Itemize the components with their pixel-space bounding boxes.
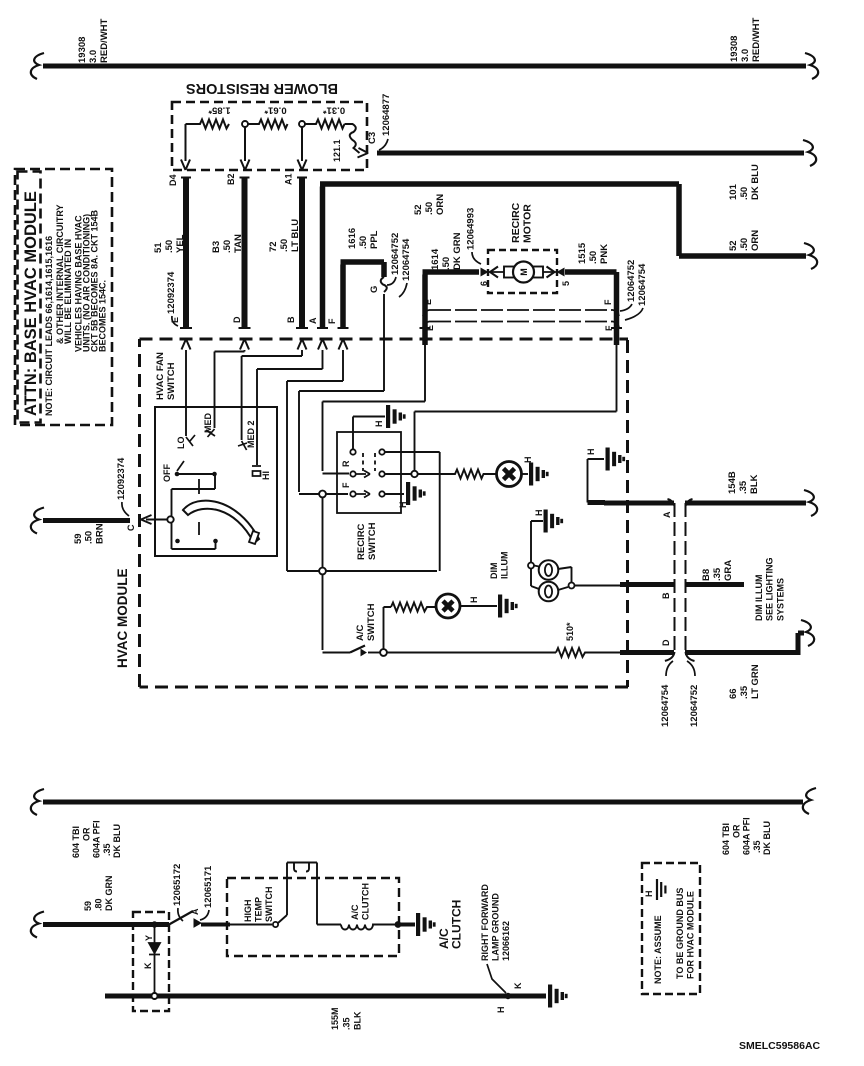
label HVAC FAN SWITCH <box>155 352 177 400</box>
svg-text:RECIRC: RECIRC <box>356 523 367 560</box>
svg-text:.35: .35 <box>752 840 762 853</box>
svg-text:3.0: 3.0 <box>740 49 751 62</box>
label R <box>341 460 351 467</box>
svg-text:BLK: BLK <box>749 474 760 494</box>
label 12065171 <box>203 865 214 908</box>
contact diode to 155M line <box>152 993 158 999</box>
contact MED flick <box>206 429 215 437</box>
wire break symbol left 19308 <box>31 53 44 79</box>
label 19308 3.0 RED/WHT left <box>77 18 110 63</box>
label B2 <box>226 173 236 185</box>
wiper tip <box>249 531 259 544</box>
svg-text:12064877: 12064877 <box>381 94 392 136</box>
leader 12064752 right to row1 <box>620 304 632 311</box>
linkage dashed 2 <box>374 453 376 471</box>
contact right mid <box>379 471 384 476</box>
contact upper-left to ground <box>350 449 355 454</box>
svg-text:MED: MED <box>203 413 213 434</box>
wire break symbol 66 LT GRN <box>801 620 814 646</box>
wire A/C lamp to ground <box>460 605 497 607</box>
label 19308 3.0 RED/WHT right <box>729 17 762 62</box>
connector arrow pin E <box>182 339 191 350</box>
switch detent tick lower <box>198 522 200 535</box>
label C3 <box>367 132 378 144</box>
contact switch A <box>194 919 201 927</box>
label pin C <box>126 524 136 531</box>
svg-text:154B: 154B <box>727 471 738 494</box>
svg-text:CLUTCH: CLUTCH <box>450 900 464 949</box>
inductor A/C clutch coil <box>341 925 395 930</box>
svg-text:PPL: PPL <box>369 230 380 249</box>
diode box <box>133 912 169 1011</box>
label F row2 <box>604 325 614 331</box>
svg-text:604A PFI: 604A PFI <box>742 817 752 855</box>
svg-text:.35: .35 <box>341 1017 351 1030</box>
svg-text:1.85*: 1.85* <box>208 105 230 116</box>
svg-text:52: 52 <box>728 240 739 251</box>
pin tick A bottom <box>317 327 328 329</box>
svg-text:ILLUM: ILLUM <box>500 552 510 580</box>
svg-text:RED/WHT: RED/WHT <box>99 18 110 63</box>
ground H dim illum <box>544 510 564 533</box>
recirc switch arm row2 <box>356 471 370 478</box>
wire dim illum ground feed <box>531 521 543 586</box>
label 12064754 bottom <box>660 684 671 727</box>
wire B8 GRA B pin <box>620 582 744 587</box>
label 1515 .50 PNK <box>577 242 610 264</box>
wire diode vertical <box>154 927 156 993</box>
svg-text:A/C: A/C <box>355 625 366 642</box>
svg-text:PNK: PNK <box>599 244 610 264</box>
wire 72 LT BLU (A1) heavy vertical <box>299 177 305 328</box>
svg-text:ATTN: BASE HVAC MODULE: ATTN: BASE HVAC MODULE <box>22 191 40 416</box>
svg-text:D: D <box>232 316 242 323</box>
svg-text:B2: B2 <box>226 173 236 185</box>
recirc switch box <box>337 432 401 513</box>
svg-text:SMELC59586AC: SMELC59586AC <box>739 1040 821 1052</box>
label pin D output <box>661 639 671 646</box>
svg-text:RIGHT FORWARD: RIGHT FORWARD <box>480 884 490 961</box>
connector arrow pin B <box>298 339 307 350</box>
lamp dim illum upper filament <box>545 564 552 576</box>
label MED 2 <box>246 420 256 448</box>
label A1 <box>284 173 294 185</box>
svg-text:H: H <box>644 891 654 898</box>
label 121.1 <box>332 139 342 162</box>
leader 12064754 <box>399 283 407 297</box>
svg-text:ORN: ORN <box>750 230 761 251</box>
lamp A/C indicator <box>436 594 460 618</box>
svg-text:12092374: 12092374 <box>166 271 177 314</box>
svg-text:0.61*: 0.61* <box>264 105 286 116</box>
svg-text:.50: .50 <box>588 251 599 264</box>
node clutch output <box>395 921 402 928</box>
svg-text:5: 5 <box>561 281 571 286</box>
label NOTE: ASSUME <box>653 915 663 984</box>
svg-text:H: H <box>586 449 596 456</box>
svg-text:3.0: 3.0 <box>88 50 99 63</box>
pin tick F bottom <box>338 327 349 329</box>
svg-text:SWITCH: SWITCH <box>264 887 274 923</box>
recirc motor box <box>488 250 557 293</box>
node dim illum left junction <box>528 563 534 569</box>
connector arrow pin A <box>318 339 327 350</box>
svg-text:C: C <box>126 524 136 531</box>
svg-text:52: 52 <box>413 204 424 215</box>
linkage dashed 1 <box>362 453 364 471</box>
label pin A output <box>662 511 672 518</box>
node dim illum right junction <box>569 583 575 589</box>
label TO BE GROUND BUS / FOR HVAC MODULE <box>675 888 696 979</box>
node fan switch input dot <box>167 516 173 522</box>
svg-text:HI: HI <box>261 471 271 480</box>
svg-text:MED 2: MED 2 <box>246 420 256 448</box>
lamp A/C filament X <box>443 601 453 611</box>
contact right bottom <box>379 491 384 496</box>
connector line C right half <box>686 499 695 661</box>
svg-text:TAN: TAN <box>233 234 244 253</box>
svg-text:F: F <box>327 318 337 324</box>
leader 12064754 bottom <box>666 661 673 676</box>
wire break symbol left 604 <box>31 789 44 815</box>
leader 12092374 to C <box>122 502 129 516</box>
wire 19308 RED/WHT feed bus <box>43 64 806 69</box>
NOTE assume box <box>642 863 700 994</box>
wire A pin to HI contact <box>257 350 323 465</box>
svg-text:HVAC MODULE: HVAC MODULE <box>115 569 130 669</box>
wire motor internal <box>489 271 556 273</box>
svg-text:SEE LIGHTING: SEE LIGHTING <box>765 557 775 621</box>
svg-text:HVAC FAN: HVAC FAN <box>155 352 166 400</box>
svg-text:.50: .50 <box>739 187 750 200</box>
connector arrow A1 at resistor box <box>298 160 307 171</box>
contact A/C switch <box>361 650 366 656</box>
wire riser to recirc switch top-right contact <box>385 452 440 571</box>
connector row C1 (12064752) <box>423 310 619 316</box>
svg-text:DK GRN: DK GRN <box>104 876 114 912</box>
contact MED 2 flick <box>238 441 247 450</box>
high temp switch blade <box>278 915 287 923</box>
label H dim illum ground <box>534 510 544 517</box>
svg-text:F: F <box>604 325 614 331</box>
HVAC MODULE box <box>140 339 629 687</box>
svg-text:604 TBI: 604 TBI <box>721 823 731 855</box>
label H A/C lamp ground <box>469 597 479 604</box>
label K diode <box>143 962 153 969</box>
svg-text:.50: .50 <box>222 240 233 253</box>
svg-text:NOTE: ASSUME: NOTE: ASSUME <box>653 915 663 984</box>
label 12092374 connector <box>166 271 177 314</box>
resistor recirc lamp <box>418 470 496 479</box>
node junction resistor 1-2 <box>242 121 248 127</box>
label pin E <box>170 317 180 323</box>
label DIM ILLUM <box>489 552 510 580</box>
label 5 <box>561 281 571 286</box>
label E row1 <box>423 299 433 305</box>
pin tick D bottom <box>239 327 251 329</box>
svg-text:H: H <box>534 510 544 517</box>
svg-text:101: 101 <box>728 183 739 200</box>
svg-text:66: 66 <box>728 688 739 699</box>
svg-text:121.1: 121.1 <box>332 139 342 162</box>
contact OFF dot <box>175 472 180 477</box>
label 52 .50 ORN upper <box>413 194 446 215</box>
svg-text:59: 59 <box>83 901 93 911</box>
svg-text:H: H <box>398 502 408 509</box>
wire OFF linkage <box>172 474 216 549</box>
svg-text:A: A <box>308 317 318 324</box>
wire F-net horizontal to A/C branch <box>287 570 437 572</box>
wire 59 DK GRN heavy <box>43 922 169 927</box>
svg-text:6: 6 <box>479 281 489 286</box>
svg-text:SYSTEMS: SYSTEMS <box>775 578 785 621</box>
label 510* <box>565 622 575 641</box>
wire break symbol left 59 BRN <box>31 508 44 534</box>
lamp dim illum lower filament <box>545 586 552 598</box>
wire B pin to MED 2 contact <box>242 350 302 440</box>
label 72 .50 LT BLU <box>268 219 301 252</box>
svg-text:.35: .35 <box>739 685 750 699</box>
wire C to fan switch input <box>146 519 167 521</box>
HVAC fan switch box <box>155 407 277 556</box>
wire 1614 E pin into module to R contact <box>323 345 426 474</box>
label OFF <box>162 464 172 482</box>
resistor 0.61 ohm <box>248 120 288 129</box>
svg-text:1616: 1616 <box>347 228 358 249</box>
connector arrow into recirc motor 6 <box>490 267 498 278</box>
ground H recirc bottom <box>406 482 426 505</box>
label H bus A ground <box>586 449 596 456</box>
svg-text:DIM: DIM <box>489 563 499 580</box>
ground H bus A <box>606 448 626 471</box>
svg-text:12064754: 12064754 <box>637 263 648 306</box>
svg-text:DK BLU: DK BLU <box>762 821 772 855</box>
svg-text:CLUTCH: CLUTCH <box>361 883 371 920</box>
svg-text:SWITCH: SWITCH <box>166 362 177 400</box>
svg-text:604 TBI: 604 TBI <box>71 826 81 858</box>
wire 1614 DK GRN heavy (E pin to recirc motor 6) <box>423 272 480 345</box>
svg-text:DK GRN: DK GRN <box>452 232 463 270</box>
label A switch <box>190 908 200 915</box>
wire break symbol right 19308 <box>805 53 818 79</box>
node junction resistor 2-3 <box>299 121 305 127</box>
svg-text:DK BLU: DK BLU <box>112 824 122 858</box>
svg-text:GRA: GRA <box>723 560 734 581</box>
motor brush left <box>504 267 514 278</box>
wire junction1 to junction2 <box>322 497 324 567</box>
label 51 .50 YEL <box>153 234 186 253</box>
svg-text:12064752: 12064752 <box>390 233 401 275</box>
wire B3 TAN (B2) heavy vertical <box>242 177 248 328</box>
svg-text:12065171: 12065171 <box>203 865 214 908</box>
leader right forward lamp ground <box>487 964 506 993</box>
svg-text:K: K <box>143 962 153 969</box>
connector arrow D4 at resistor box <box>181 160 190 171</box>
label pin D <box>232 316 242 323</box>
svg-text:NOTE: CIRCUIT LEADS 66,1614,16: NOTE: CIRCUIT LEADS 66,1614,1615,1616 <box>44 236 54 416</box>
switch A blade <box>169 911 193 925</box>
node right forward lamp ground tap <box>505 993 511 999</box>
svg-text:.50: .50 <box>358 236 369 249</box>
contact LO flick <box>186 435 195 446</box>
wire break symbol right 604 <box>803 788 816 814</box>
label 12064754 at G <box>401 238 412 281</box>
svg-text:M: M <box>519 268 529 276</box>
label A/C CLUTCH in box <box>350 883 371 920</box>
ground H A/C lamp <box>498 595 518 618</box>
leader 12065172 <box>178 908 183 921</box>
svg-text:12064752: 12064752 <box>689 685 700 727</box>
svg-text:G: G <box>369 286 380 293</box>
contact D8 dot left <box>175 539 180 544</box>
label 12064752 at G <box>390 233 401 275</box>
label D4 <box>168 174 178 186</box>
resistor 1.85 ohm <box>186 120 230 129</box>
svg-text:D4: D4 <box>168 174 178 186</box>
svg-text:.50: .50 <box>84 531 95 544</box>
svg-text:12064993: 12064993 <box>466 208 477 250</box>
svg-text:.50: .50 <box>739 238 750 251</box>
recirc switch arm row3 <box>356 491 370 498</box>
svg-text:LT BLU: LT BLU <box>290 219 301 252</box>
leader 12092374 to pin row <box>172 316 178 326</box>
leader 12064752 to G <box>387 277 396 285</box>
wire dim illum lower links <box>531 586 568 590</box>
label 12064752 right <box>626 260 637 302</box>
svg-text:B: B <box>661 592 671 599</box>
label 59 .50 BRN <box>73 523 105 544</box>
svg-text:FOR HVAC MODULE: FOR HVAC MODULE <box>686 891 696 979</box>
fan switch wiper arc <box>183 501 259 543</box>
label 1616 .50 PPL <box>347 228 380 249</box>
wire to 510 resistor <box>387 652 556 654</box>
label HI <box>261 471 271 480</box>
switch detent tick upper <box>198 479 200 494</box>
thermal element bracket <box>287 863 317 916</box>
high temp switch box <box>227 878 399 956</box>
label 604 TBI OR 604A PFI .35 DK BLU right <box>721 817 772 855</box>
svg-text:DK BLU: DK BLU <box>750 164 761 200</box>
resistor 510 ohm <box>556 648 627 657</box>
label MED <box>203 413 213 434</box>
label B8 .35 GRA <box>701 560 734 581</box>
label F recirc <box>341 482 351 488</box>
svg-text:A1: A1 <box>284 173 294 185</box>
label RECIRC MOTOR <box>510 202 534 243</box>
svg-text:F: F <box>603 299 613 305</box>
svg-text:OR: OR <box>81 827 91 841</box>
label F row1 <box>603 299 613 305</box>
svg-text:H: H <box>374 421 384 428</box>
ground A/C clutch <box>416 913 436 936</box>
svg-text:12064752: 12064752 <box>626 260 637 302</box>
pin tick D4 top <box>181 177 191 179</box>
wire mid drop 1 to B2 <box>244 127 246 161</box>
label H recirc lamp ground <box>523 457 533 464</box>
motor brush right <box>533 267 543 278</box>
ground H recirc lamp <box>529 463 549 486</box>
label 12064877 <box>381 94 392 136</box>
svg-text:BLOWER RESISTORS: BLOWER RESISTORS <box>186 80 338 96</box>
svg-text:12064754: 12064754 <box>660 684 671 727</box>
blower resistors box <box>172 102 367 170</box>
svg-text:SWITCH: SWITCH <box>367 522 378 560</box>
svg-text:.50: .50 <box>279 239 290 252</box>
label 154B .35 BLK <box>727 471 760 494</box>
lamp recirc filament X <box>504 469 515 480</box>
label LO <box>176 437 186 450</box>
connector arrow from motor 5 <box>547 267 555 278</box>
node recirc lamp junction <box>411 471 417 477</box>
svg-text:19308: 19308 <box>77 37 88 63</box>
label RECIRC SWITCH <box>356 522 378 560</box>
label 12092374 at C <box>116 457 127 500</box>
leader 12065171 <box>200 910 209 920</box>
svg-text:DIM ILLUM: DIM ILLUM <box>754 575 764 622</box>
wire dim illum to B pin <box>575 585 628 587</box>
connector arrow pin D <box>240 339 249 350</box>
svg-text:.35: .35 <box>102 843 112 856</box>
node junction 1616/recirc F <box>319 491 326 498</box>
ATTN note outer box <box>15 169 112 425</box>
wire A/C lamp branch riser <box>384 607 392 649</box>
resistor 0.31 ohm <box>305 120 345 129</box>
label 101 .50 DK BLU <box>728 164 761 200</box>
label 12064993 <box>466 208 477 250</box>
connector arrow C3 <box>358 148 369 158</box>
lamp dim illum upper <box>539 560 559 580</box>
label ATTN note text <box>44 205 108 417</box>
A/C switch blade <box>350 646 365 653</box>
wire recirc mid contact to junction <box>385 473 411 475</box>
svg-text:RECIRC: RECIRC <box>510 202 522 243</box>
svg-text:H: H <box>496 1007 506 1014</box>
label H 155M <box>496 1007 506 1014</box>
wire D pin to MED contact <box>215 350 245 428</box>
svg-text:A: A <box>190 908 200 915</box>
resistor A/C lamp <box>391 603 436 612</box>
svg-text:HIGH: HIGH <box>243 900 253 923</box>
leader 12064752 bottom <box>687 661 695 676</box>
svg-text:YEL: YEL <box>175 234 186 253</box>
svg-text:LAMP GROUND: LAMP GROUND <box>491 893 501 961</box>
label Y <box>144 935 154 941</box>
label DIM ILLUM SEE LIGHTING SYSTEMS <box>754 557 785 621</box>
motor M armature <box>513 262 534 283</box>
leader 12064877 to C3 <box>379 139 388 150</box>
svg-text:LO: LO <box>176 437 186 450</box>
wire break symbol right 52 ORN <box>804 243 817 269</box>
svg-text:TO BE GROUND BUS: TO BE GROUND BUS <box>675 888 685 979</box>
label H note ground <box>644 891 654 898</box>
label 59 .80 DK GRN <box>83 876 114 912</box>
svg-text:E: E <box>425 325 435 331</box>
contact high temp switch <box>273 922 278 927</box>
node diode tap on 59 <box>151 921 157 927</box>
wire G 1616 into module <box>299 294 384 494</box>
wire A/C switch branch <box>323 575 351 653</box>
connector jog G <box>381 277 387 292</box>
wire 1515 PNK heavy (motor 5 to F pin) <box>565 272 617 345</box>
svg-text:H: H <box>469 597 479 604</box>
pin tick A1 top <box>297 177 307 179</box>
svg-text:B: B <box>286 316 296 323</box>
wire 1515 F pin into module to junction <box>415 345 617 470</box>
pin tick B2 top <box>240 177 250 179</box>
svg-text:WILL BE ELIMINATED IN: WILL BE ELIMINATED IN <box>63 239 73 344</box>
connector line C left half <box>665 499 675 661</box>
svg-text:BECOMES 154C.: BECOMES 154C. <box>98 280 108 352</box>
